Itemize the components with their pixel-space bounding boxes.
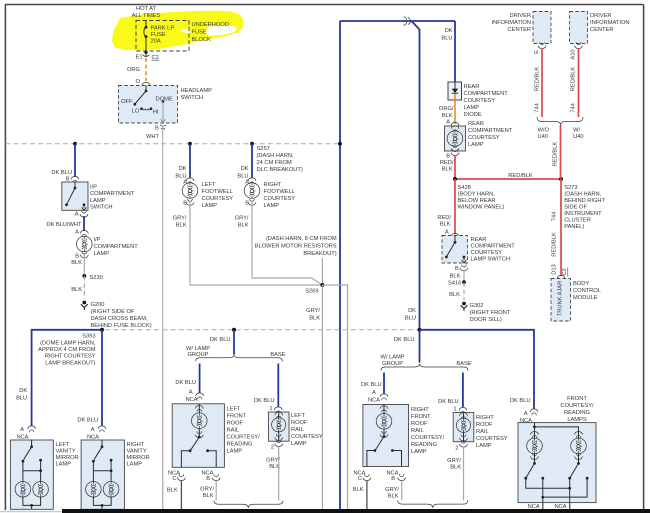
svg-text:HEADLAMP: HEADLAMP (181, 88, 213, 94)
svg-text:DK BLU: DK BLU (394, 337, 415, 343)
I/P compartment lamp E1 (77, 236, 139, 257)
splice S273 (559, 177, 606, 230)
svg-text:FOOTWELL: FOOTWELL (202, 189, 233, 195)
svg-text:LAMP: LAMP (464, 105, 480, 111)
wire GRY/BLK right footwell to S269 (252, 201, 322, 285)
wire DK BLU to right roof rail lamp (438, 373, 467, 414)
svg-text:LAMP: LAMP (264, 203, 280, 209)
svg-text:LEFT: LEFT (227, 407, 241, 413)
wire DK BLU to right front roof rail lamp (361, 373, 388, 404)
wire DK BLU to left front roof rail lamp (175, 364, 203, 403)
svg-text:COURTESY/: COURTESY/ (560, 403, 594, 409)
svg-text:LEFT: LEFT (56, 442, 70, 448)
svg-text:24 CM FROM: 24 CM FROM (257, 160, 292, 166)
pin B left footwell (173, 199, 194, 229)
svg-text:SWITCH: SWITCH (181, 95, 204, 101)
brace left group (186, 346, 286, 361)
svg-text:LO: LO (132, 109, 140, 115)
svg-text:HOT AT: HOT AT (136, 6, 157, 12)
svg-text:A10: A10 (571, 49, 577, 59)
brace right group (381, 355, 472, 371)
wire ORG/BLK diode to lamp (439, 100, 459, 129)
svg-text:PARK LP: PARK LP (151, 26, 175, 32)
svg-text:BLK: BLK (442, 167, 453, 173)
svg-text:BLU: BLU (16, 396, 27, 402)
svg-text:(RIGHT FRONT: (RIGHT FRONT (470, 310, 511, 316)
svg-text:COMPARTMENT: COMPARTMENT (90, 191, 135, 197)
svg-text:B: B (446, 154, 450, 160)
rear compartment courtesy lamp switch (442, 236, 515, 264)
svg-text:BELOW REAR: BELOW REAR (458, 198, 496, 204)
svg-text:C2: C2 (562, 268, 568, 275)
svg-text:DK BLU: DK BLU (77, 418, 98, 424)
svg-text:ROOF: ROOF (411, 421, 428, 427)
bottom black bar (62, 509, 650, 513)
svg-text:NCA: NCA (185, 397, 197, 403)
svg-text:WINDOW PANEL): WINDOW PANEL) (458, 205, 505, 211)
svg-text:BLK: BLK (203, 493, 214, 499)
svg-text:DK: DK (408, 308, 416, 314)
svg-text:GRY/: GRY/ (385, 487, 399, 493)
svg-text:W/O: W/O (538, 128, 550, 134)
svg-text:LAMP: LAMP (56, 462, 72, 468)
svg-text:S393: S393 (82, 334, 95, 340)
right roof rail group feed (394, 328, 422, 363)
svg-text:DLC BREAKOUT): DLC BREAKOUT) (257, 167, 303, 173)
svg-text:UNDERHOOD: UNDERHOOD (192, 22, 229, 28)
svg-text:B: B (391, 476, 395, 482)
svg-text:FOOTWELL: FOOTWELL (264, 189, 295, 195)
svg-text:DK BLU: DK BLU (510, 398, 531, 404)
pin 2 left roof rail (266, 440, 282, 470)
wire GRY/BLK left roof rail down (278, 447, 280, 501)
wire DK BLU branch diagonal down (412, 21, 420, 330)
svg-text:CLUSTER: CLUSTER (564, 218, 591, 224)
fuse PARK LP FUSE 20A (144, 21, 174, 52)
pin O headlamp switch (136, 79, 150, 89)
svg-text:DK BLU: DK BLU (254, 398, 275, 404)
svg-text:20A: 20A (151, 39, 161, 45)
svg-text:B: B (75, 254, 79, 260)
svg-text:DRIVER: DRIVER (509, 13, 531, 19)
right vanity mirror lamp (81, 440, 150, 509)
svg-text:DK: DK (445, 28, 453, 34)
wire DK BLU right vertical to diode (441, 21, 455, 82)
svg-text:744: 744 (552, 211, 558, 221)
inline connector on top wire (404, 17, 411, 25)
merge brace W/O U40 / W U40 (537, 117, 584, 140)
svg-text:DK: DK (19, 388, 27, 394)
wire GRY/BLK down from S269 (306, 285, 322, 509)
wire DK BLU to right vanity (101, 330, 103, 426)
right roof rail courtesy lamp (453, 413, 508, 450)
wire RED/BLK S428 to S273 (455, 173, 561, 179)
svg-text:NCA: NCA (528, 504, 540, 510)
svg-text:LAMP SWITCH: LAMP SWITCH (471, 257, 511, 263)
svg-text:(BODY HARN,: (BODY HARN, (458, 192, 496, 198)
svg-text:LAMP: LAMP (468, 142, 484, 148)
svg-text:DASH CROSS BEAM,: DASH CROSS BEAM, (91, 316, 148, 322)
pin A of switch (46, 211, 88, 228)
labels left vanity feed (16, 388, 35, 441)
svg-text:REAR: REAR (468, 121, 484, 127)
wire RED/BLK lamp to S428 (454, 156, 456, 180)
svg-text:ROOF: ROOF (291, 420, 308, 426)
svg-text:G302: G302 (470, 303, 484, 309)
svg-text:BLK: BLK (449, 292, 460, 298)
svg-text:REAR: REAR (471, 237, 487, 243)
left roof rail courtesy lamp (268, 412, 322, 447)
svg-text:READING: READING (227, 442, 254, 448)
wire RED/BLK S273 to BCM (552, 179, 569, 282)
svg-text:ROOF: ROOF (227, 421, 244, 427)
pin B right footwell (235, 199, 256, 229)
splice S269 (305, 283, 324, 294)
svg-text:GROUP: GROUP (382, 361, 403, 367)
svg-text:COURTESY/: COURTESY/ (411, 435, 445, 441)
svg-text:RAIL: RAIL (411, 428, 424, 434)
svg-text:BODY: BODY (573, 281, 589, 287)
wire DK BLU to left vanity (32, 330, 102, 426)
svg-text:FRONT: FRONT (411, 414, 431, 420)
svg-text:LAMP: LAMP (411, 449, 427, 455)
dashed distribution line 2 (31, 329, 420, 331)
svg-text:1: 1 (453, 407, 456, 413)
svg-text:LAMPS: LAMPS (567, 417, 587, 423)
svg-text:RIGHT: RIGHT (127, 442, 145, 448)
pin B rear lamp (440, 149, 459, 172)
svg-text:BLK: BLK (71, 287, 82, 293)
svg-text:DK BLU: DK BLU (361, 382, 382, 388)
svg-text:BLOCK: BLOCK (192, 37, 212, 43)
svg-text:DK BLU: DK BLU (438, 399, 459, 405)
svg-text:(DASH HARN, 8 CM FROM: (DASH HARN, 8 CM FROM (266, 236, 337, 242)
merge brace left group bottom (214, 501, 283, 509)
svg-text:BLK: BLK (440, 222, 451, 228)
svg-text:DOOR SILL): DOOR SILL) (470, 317, 502, 323)
pins NCA C / NCA B right front (353, 471, 406, 500)
svg-text:FUSE: FUSE (192, 30, 207, 36)
svg-text:VANITY: VANITY (127, 449, 147, 455)
svg-text:HI: HI (153, 110, 159, 116)
connector E1 / C2 below fuse block (136, 51, 159, 61)
svg-text:DK BLU: DK BLU (210, 337, 231, 343)
svg-text:A: A (75, 212, 79, 218)
wire RED/BLK S428 down to switch (437, 179, 459, 240)
wire DK BLU to front courtesy lamps (420, 330, 538, 424)
pin B rear switch (450, 265, 468, 280)
svg-text:CENTER: CENTER (590, 27, 613, 33)
svg-text:CENTER: CENTER (508, 27, 531, 33)
splice S428 (453, 177, 504, 211)
svg-text:O: O (136, 79, 141, 85)
svg-text:BASE: BASE (456, 361, 471, 367)
svg-text:RED/BLK: RED/BLK (552, 232, 558, 257)
svg-text:W/ LAMP: W/ LAMP (381, 355, 405, 361)
svg-text:RIGHT: RIGHT (264, 182, 282, 188)
svg-text:RAIL: RAIL (476, 429, 489, 435)
svg-text:A: A (189, 390, 193, 396)
svg-text:DK: DK (179, 166, 187, 172)
svg-text:GRY/: GRY/ (173, 216, 187, 222)
driver information center 2 (570, 12, 630, 49)
pins NCA C / NCA B left front (167, 471, 220, 500)
svg-text:BLK: BLK (71, 260, 82, 266)
svg-text:DK BLU/WHT: DK BLU/WHT (46, 222, 82, 228)
wire GRY/BLK right roof rail down (463, 447, 465, 500)
svg-text:S257: S257 (257, 146, 270, 152)
svg-text:DRIVER: DRIVER (590, 13, 612, 19)
svg-text:A: A (91, 427, 95, 433)
svg-text:S230: S230 (90, 275, 103, 281)
svg-text:LAMP: LAMP (94, 251, 110, 257)
svg-text:A: A (75, 230, 79, 236)
svg-text:C: C (172, 476, 176, 482)
labels right vanity feed (77, 418, 105, 441)
svg-text:RED/: RED/ (437, 215, 451, 221)
svg-text:RED/BLK: RED/BLK (535, 67, 541, 92)
svg-text:U40: U40 (538, 134, 548, 140)
headlamp switch (119, 86, 213, 124)
svg-text:RAIL: RAIL (227, 428, 240, 434)
svg-text:COURTESY: COURTESY (202, 196, 234, 202)
svg-text:BLOWER MOTOR RESISTORS: BLOWER MOTOR RESISTORS (255, 244, 337, 250)
svg-text:GROUP: GROUP (188, 352, 209, 358)
pin 2 right roof rail (447, 441, 467, 471)
svg-text:A: A (20, 427, 24, 433)
svg-text:MIRROR: MIRROR (56, 455, 79, 461)
note for S269 (255, 236, 337, 283)
right footwell courtesy lamp (244, 182, 295, 209)
svg-text:2: 2 (271, 445, 274, 451)
wire GRY/BLK left footwell to S269 (190, 201, 322, 286)
svg-text:G200: G200 (91, 302, 105, 308)
svg-text:1: 1 (269, 406, 272, 412)
svg-text:A: A (524, 411, 528, 417)
wire GRY/BLK right branch from S269 (322, 285, 347, 509)
front courtesy/reading lamps (518, 396, 596, 503)
svg-text:E1: E1 (136, 55, 143, 61)
wire DK BLU to left roof rail lamp (254, 364, 282, 414)
wire RED/BLK from DIC2 (571, 49, 579, 118)
svg-text:B: B (455, 266, 459, 272)
svg-text:COURTESY: COURTESY (264, 196, 296, 202)
wire BLK dashed to ground (71, 276, 84, 299)
splice S230 (82, 274, 102, 281)
svg-text:INFORMATION: INFORMATION (492, 20, 532, 26)
wire GRY/BLK right front down (401, 481, 403, 501)
svg-text:2: 2 (455, 446, 458, 452)
svg-text:DK BLU: DK BLU (175, 380, 196, 386)
svg-text:WHT: WHT (146, 134, 160, 140)
wire WHT long vertical (162, 127, 164, 509)
svg-text:MIRROR: MIRROR (127, 455, 150, 461)
svg-text:BLK: BLK (176, 223, 187, 229)
svg-text:COMPARTMENT: COMPARTMENT (468, 128, 513, 134)
svg-text:APPROX 4 CM FROM: APPROX 4 CM FROM (38, 347, 96, 353)
svg-text:FRONT: FRONT (227, 414, 247, 420)
svg-text:BLK: BLK (450, 465, 461, 471)
ground G302 (461, 302, 511, 323)
svg-text:COURTESY/: COURTESY/ (227, 435, 261, 441)
body control module (551, 279, 601, 322)
svg-text:W/: W/ (573, 128, 580, 134)
svg-text:COMPARTMENT: COMPARTMENT (471, 244, 516, 250)
svg-text:RIGHT: RIGHT (476, 415, 494, 421)
svg-text:COURTESY: COURTESY (291, 434, 323, 440)
label HOT AT ALL TIMES (132, 6, 161, 19)
wire BLK to S416 (463, 270, 465, 283)
wire BLK dashed to ground (449, 282, 464, 300)
svg-text:COURTESY: COURTESY (464, 98, 496, 104)
svg-text:LEFT: LEFT (291, 413, 305, 419)
wire BLK right front down (366, 481, 368, 510)
rear compartment courtesy lamp diode D1 (448, 82, 508, 118)
label UNDERHOOD FUSE BLOCK (192, 22, 229, 43)
svg-text:RAIL: RAIL (291, 427, 304, 433)
svg-text:A: A (445, 230, 449, 236)
svg-text:A: A (372, 390, 376, 396)
wire DK BLU/WHT (83, 216, 85, 231)
svg-text:INSTRUMENT: INSTRUMENT (564, 211, 602, 217)
svg-text:INFORMATION: INFORMATION (590, 20, 630, 26)
svg-text:GRY/: GRY/ (447, 458, 461, 464)
svg-text:READING: READING (411, 442, 438, 448)
right front roof rail courtesy/reading lamp (363, 405, 445, 467)
svg-text:ORG/: ORG/ (439, 106, 454, 112)
svg-text:READING: READING (564, 410, 591, 416)
svg-text:LAMP: LAMP (291, 441, 307, 447)
svg-text:BLK: BLK (167, 488, 178, 494)
svg-text:B: B (206, 476, 210, 482)
svg-text:LAMP: LAMP (90, 198, 106, 204)
svg-text:LAMP: LAMP (227, 449, 243, 455)
svg-text:RED/BLK: RED/BLK (553, 142, 559, 167)
svg-text:GRY/: GRY/ (235, 216, 249, 222)
pins NCA C / NCA B front lamps (528, 503, 570, 513)
svg-text:SIDE OF: SIDE OF (564, 205, 587, 211)
svg-text:E: E (534, 50, 540, 54)
wire GRY/BLK left front down (215, 481, 217, 501)
left footwell courtesy lamp (182, 182, 233, 209)
svg-text:BREAKOUT): BREAKOUT) (303, 251, 336, 257)
svg-text:BLK: BLK (238, 223, 249, 229)
svg-text:BLU: BLU (441, 36, 452, 42)
svg-text:LAMP: LAMP (127, 462, 143, 468)
svg-text:COURTESY: COURTESY (468, 135, 500, 141)
svg-text:(DOME LAMP HARN,: (DOME LAMP HARN, (40, 340, 96, 346)
svg-text:D13: D13 (552, 264, 558, 274)
dashed distribution line 1 (6, 143, 341, 145)
main wire DK BLU top horizontal (340, 21, 455, 509)
svg-text:LEFT: LEFT (202, 182, 216, 188)
wire BLK to S230 (83, 254, 85, 276)
svg-text:BEHIND FUSE BLOCK): BEHIND FUSE BLOCK) (91, 323, 152, 329)
svg-text:COMPARTMENT: COMPARTMENT (94, 244, 139, 250)
svg-text:RIGHT: RIGHT (411, 407, 429, 413)
svg-text:RED/: RED/ (440, 160, 454, 166)
pin B of lamp (71, 252, 88, 267)
svg-text:BLK: BLK (388, 494, 399, 500)
svg-text:LAMP: LAMP (476, 443, 492, 449)
svg-text:ROOF: ROOF (476, 422, 493, 428)
svg-text:ORG: ORG (127, 67, 141, 73)
pin B headlamp switch (146, 125, 166, 140)
svg-text:S428: S428 (458, 185, 471, 191)
svg-text:BLK: BLK (450, 274, 461, 280)
svg-text:REAR: REAR (464, 84, 480, 90)
svg-text:S416: S416 (448, 281, 461, 287)
highlighter mark over fuse block (112, 11, 244, 51)
pin A of lamp (75, 230, 88, 237)
svg-text:744: 744 (535, 102, 541, 112)
svg-text:MODULE: MODULE (573, 295, 598, 301)
svg-text:RIGHT COURTESY: RIGHT COURTESY (45, 354, 96, 360)
splice S416 (448, 280, 466, 286)
svg-text:RED/BLK: RED/BLK (508, 173, 533, 179)
svg-text:RED/BLK: RED/BLK (571, 67, 577, 92)
left vanity mirror lamp (10, 440, 78, 509)
svg-text:DK: DK (241, 166, 249, 172)
svg-text:COMPARTMENT: COMPARTMENT (464, 91, 509, 97)
left roof rail group feed (210, 328, 236, 355)
svg-text:LAMP BREAKOUT): LAMP BREAKOUT) (45, 360, 95, 366)
svg-text:A: A (446, 120, 450, 126)
svg-text:BLK: BLK (309, 316, 320, 322)
svg-text:BLK: BLK (353, 487, 364, 493)
svg-text:NCA: NCA (554, 504, 566, 510)
left footwell branch (175, 142, 194, 186)
svg-text:S273: S273 (564, 185, 577, 191)
svg-text:ALL TIMES: ALL TIMES (132, 13, 161, 19)
svg-text:GRY/: GRY/ (306, 308, 320, 314)
svg-text:SWITCH: SWITCH (90, 205, 113, 211)
svg-text:VANITY: VANITY (56, 449, 76, 455)
svg-text:FRONT: FRONT (567, 396, 587, 402)
wire RED/BLK merged to S273 (553, 125, 561, 179)
svg-text:TRUNK AJAR: TRUNK AJAR (558, 281, 564, 316)
svg-text:COURTESY: COURTESY (471, 250, 503, 256)
svg-text:I/P: I/P (90, 185, 97, 191)
svg-text:PANEL): PANEL) (564, 224, 584, 230)
svg-text:OFF: OFF (121, 99, 133, 105)
svg-text:DK BLU: DK BLU (51, 170, 72, 176)
merge brace right group bottom (398, 500, 468, 508)
wire BLK left front down (180, 481, 182, 510)
svg-text:FUSE: FUSE (151, 32, 166, 38)
svg-text:744: 744 (571, 102, 577, 112)
svg-text:COURTESY: COURTESY (476, 436, 508, 442)
splice S393 (38, 328, 104, 367)
svg-text:BASE: BASE (270, 352, 285, 358)
wire RED/BLK from DIC1 (534, 49, 542, 118)
svg-text:S269: S269 (305, 288, 318, 294)
svg-text:(DASH HARN,: (DASH HARN, (564, 192, 601, 198)
svg-text:U40: U40 (573, 134, 583, 140)
svg-text:GRY/: GRY/ (200, 487, 214, 493)
svg-text:NCA: NCA (368, 398, 380, 404)
right footwell branch (237, 142, 256, 186)
svg-text:B: B (155, 126, 159, 132)
wire DK BLU (51, 142, 78, 183)
svg-text:BLK: BLK (442, 113, 453, 119)
grey separator line vertical (162, 330, 164, 509)
svg-text:CONTROL: CONTROL (573, 288, 601, 294)
svg-text:DIODE: DIODE (464, 112, 482, 118)
svg-text:BEHIND RIGHT: BEHIND RIGHT (564, 198, 605, 204)
wire ORG from fuse to headlamp switch (127, 58, 146, 81)
underhood fuse block box (136, 21, 189, 52)
